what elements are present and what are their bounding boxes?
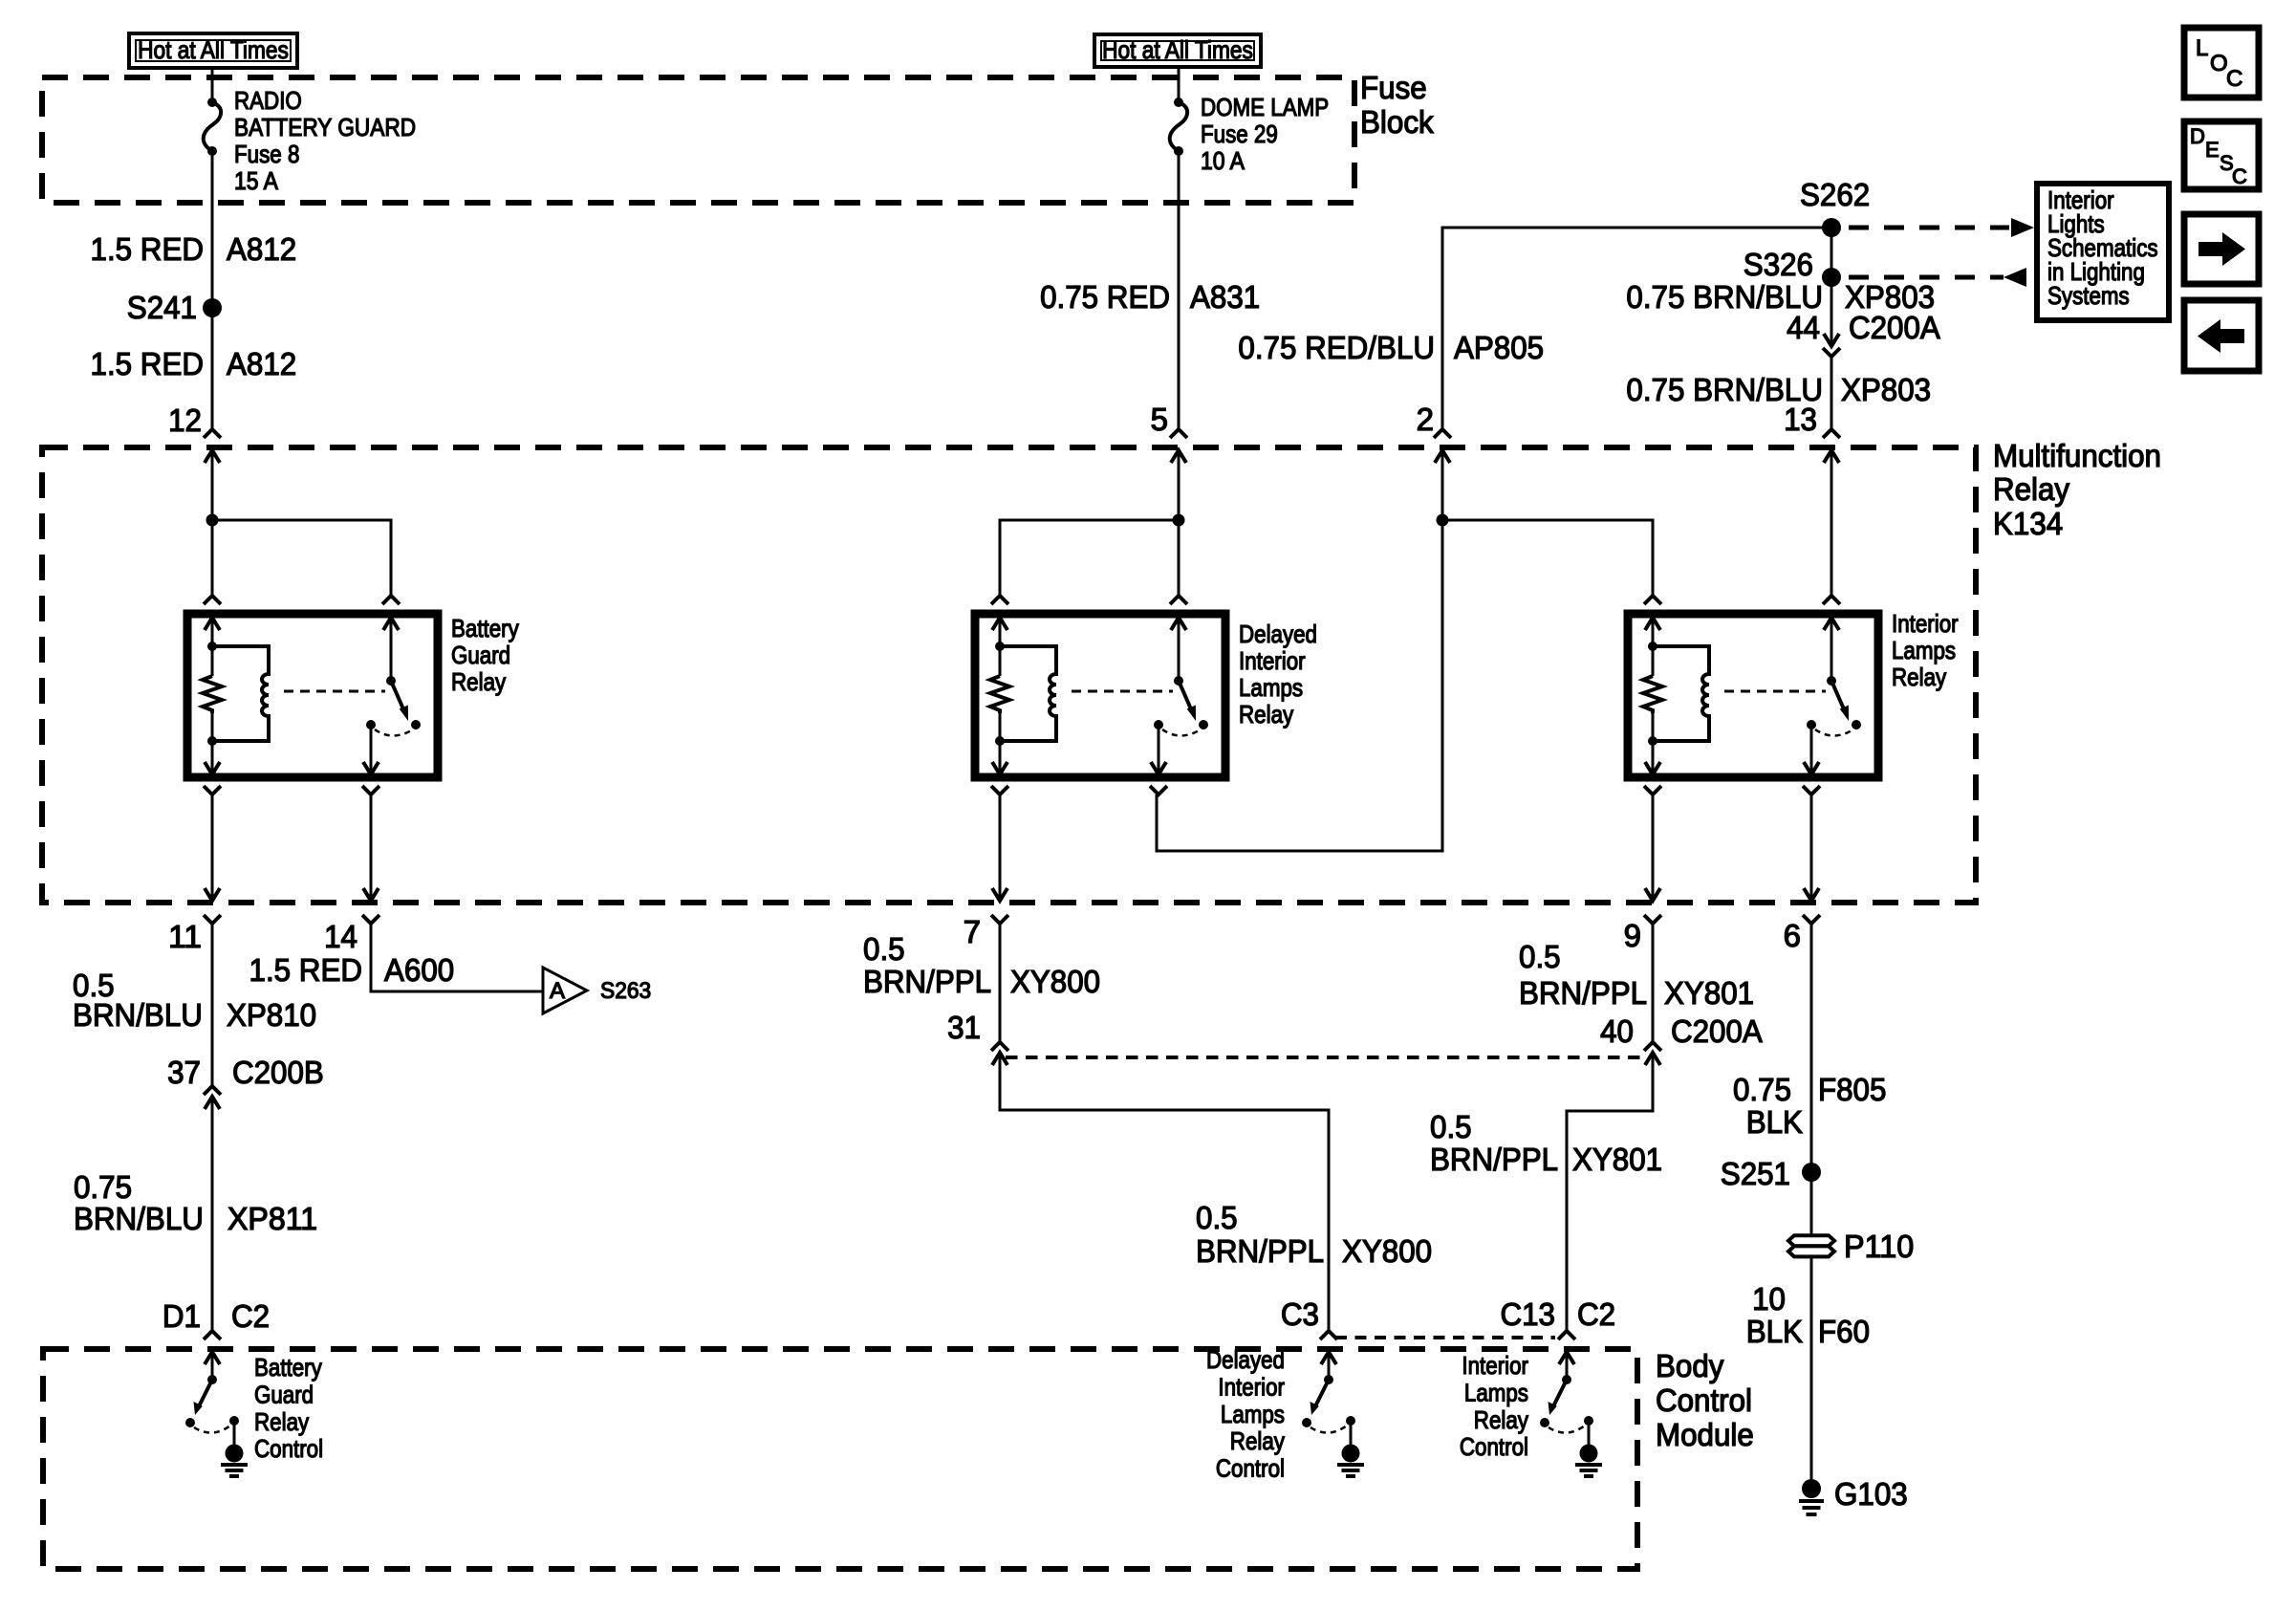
- svg-text:Delayed: Delayed: [1206, 1345, 1285, 1374]
- svg-text:10 A: 10 A: [1201, 146, 1245, 175]
- BCM switch: Battery Guard Relay Control ground: [221, 1421, 248, 1476]
- label 1.5 RED A812 (below splice): [91, 346, 297, 381]
- svg-text:BRN/PPL: BRN/PPL: [1430, 1142, 1558, 1177]
- svg-text:Lamps: Lamps: [1892, 636, 1956, 664]
- junction node (coil/switch feed): [206, 514, 219, 527]
- wire F60: P110 to ground G103: [1810, 1256, 1813, 1479]
- fuse F29 (DOME LAMP 10 A): [1170, 93, 1329, 175]
- svg-text:0.5: 0.5: [863, 931, 905, 967]
- svg-text:BRN/PPL: BRN/PPL: [1196, 1233, 1324, 1269]
- corner button next-page arrow: [2184, 214, 2259, 284]
- Delayed Interior Lamps Relay: switch arm and contacts: [1154, 676, 1208, 736]
- splice S262: [1800, 177, 1870, 237]
- junction node (dome lamp feed): [1173, 514, 1185, 527]
- wire XY800: C200A to BCM pin C3: [1000, 1053, 1329, 1331]
- svg-text:Relay: Relay: [1892, 663, 1946, 691]
- dashed signal: Interior Lights Schematics to S326 (incoming): [1849, 268, 2026, 287]
- svg-text:S241: S241: [127, 290, 197, 325]
- svg-text:S263: S263: [600, 978, 651, 1004]
- Delayed Interior Lamps Relay: coil inductor: [1000, 646, 1056, 741]
- svg-text:XY801: XY801: [1572, 1142, 1662, 1177]
- Battery Guard Relay: coil input terminal (top): [204, 596, 221, 646]
- svg-text:C200A: C200A: [1671, 1013, 1763, 1049]
- svg-text:K134: K134: [1993, 506, 2063, 541]
- corner button previous-page arrow: [2184, 300, 2259, 371]
- svg-text:XY800: XY800: [1010, 964, 1100, 999]
- svg-text:Interior: Interior: [1239, 646, 1306, 675]
- svg-text:12: 12: [168, 403, 202, 438]
- label Body Control Module: [1656, 1348, 1754, 1452]
- svg-text:14: 14: [324, 919, 357, 954]
- svg-text:0.5: 0.5: [1196, 1200, 1238, 1235]
- wire: branch to Interior Lamps Relay coil: [1442, 520, 1653, 596]
- wire F805: Interior Lamps Relay switch output to MF pin 6: [1804, 795, 1819, 901]
- svg-text:11: 11: [168, 919, 202, 954]
- svg-text:BRN/PPL: BRN/PPL: [863, 964, 991, 999]
- connector D1 C2 into BCM: [162, 1298, 270, 1339]
- Battery Guard Relay: actuation link (dashed): [284, 690, 385, 693]
- label Delayed Interior Lamps Relay: [1239, 620, 1317, 729]
- wire: Delayed Interior Lamps Relay switch output to dome lamp feed node: [1157, 526, 1442, 851]
- label 0.75 BRN/BLU XP803 (upper): [1626, 279, 1935, 315]
- svg-text:7: 7: [964, 914, 981, 949]
- svg-text:AP805: AP805: [1454, 330, 1544, 365]
- svg-text:0.5: 0.5: [1519, 939, 1561, 974]
- wire: battery feed to Fuse 8: [211, 68, 214, 102]
- svg-text:C200A: C200A: [1849, 310, 1940, 345]
- Battery Guard Relay: switch arm and contacts: [366, 676, 421, 736]
- wire: pin 12 down to Battery Guard Relay coil: [211, 450, 214, 596]
- svg-text:BATTERY GUARD: BATTERY GUARD: [234, 113, 416, 142]
- fuse block (dashed outline): [42, 77, 1354, 203]
- Interior Lamps Relay: coil resistor: [1643, 642, 1662, 746]
- svg-text:44: 44: [1787, 310, 1820, 345]
- svg-text:Control: Control: [1216, 1454, 1285, 1483]
- svg-text:Lamps: Lamps: [1221, 1400, 1285, 1428]
- wire: S262 to S326: [1830, 228, 1833, 277]
- wire: branch to Battery Guard Relay switch: [212, 520, 391, 596]
- BCM switch: Interior Lamps Relay Control (arm and contacts): [1540, 1375, 1593, 1433]
- Delayed Interior Lamps Relay: switch output terminal (bottom): [1150, 725, 1167, 795]
- wire XP810: pin 11 to connector C200B: [211, 924, 214, 1086]
- svg-text:C200B: C200B: [232, 1055, 324, 1090]
- svg-text:C3: C3: [1281, 1296, 1319, 1332]
- wire: Battery Guard Relay switch output to MF pin 14: [363, 795, 379, 901]
- pin 12 connector into Multifunction Relay: [168, 403, 221, 463]
- label 1.5 RED A600: [249, 952, 455, 988]
- svg-text:2: 2: [1417, 402, 1434, 437]
- svg-text:S251: S251: [1721, 1156, 1790, 1191]
- svg-text:Control: Control: [1656, 1382, 1752, 1418]
- inline connector 31 C200A: [947, 1010, 1008, 1065]
- Battery Guard Relay: coil output terminal (bottom): [204, 741, 221, 795]
- svg-text:1.5 RED: 1.5 RED: [91, 231, 205, 267]
- label 10 BLK F60: [1746, 1281, 1870, 1349]
- svg-text:C: C: [2226, 66, 2242, 92]
- svg-text:0.5: 0.5: [1430, 1109, 1472, 1144]
- svg-text:Battery: Battery: [254, 1353, 322, 1382]
- svg-text:Relay: Relay: [1474, 1405, 1528, 1434]
- pin 6 connector (MF bottom): [1784, 915, 1820, 953]
- svg-text:Relay: Relay: [1230, 1426, 1285, 1455]
- pin 11 connector (MF bottom): [168, 915, 221, 954]
- label Battery Guard Relay: [451, 614, 519, 696]
- relay box: Interior Lamps Relay: [1628, 614, 1878, 777]
- corner button LOC: [2184, 28, 2259, 98]
- label Interior Lamps Relay: [1892, 609, 1959, 691]
- Delayed Interior Lamps Relay: coil resistor: [990, 642, 1009, 746]
- Interior Lamps Relay: switch arm and contacts: [1807, 676, 1861, 736]
- connector C13 C2 into BCM: [1501, 1296, 1616, 1339]
- svg-text:Systems: Systems: [2047, 281, 2130, 310]
- Delayed Interior Lamps Relay: switch input terminal (top): [1170, 596, 1187, 681]
- Interior Lamps Relay: coil inductor: [1653, 646, 1709, 741]
- power feed box "Hot at All Times" (dome lamp): [1094, 34, 1261, 67]
- svg-text:9: 9: [1624, 918, 1641, 953]
- svg-text:G103: G103: [1834, 1476, 1908, 1512]
- Interior Lamps Relay: switch input terminal (top): [1823, 596, 1840, 681]
- fuse F8 (RADIO BATTERY GUARD 15 A): [204, 86, 416, 195]
- relay box: Battery Guard Relay: [187, 614, 438, 777]
- wire XP811: C200B to BCM pin D1 C2: [211, 1097, 214, 1331]
- label Multifunction Relay K134: [1993, 438, 2161, 541]
- svg-text:Guard: Guard: [254, 1380, 314, 1408]
- svg-text:6: 6: [1784, 918, 1801, 953]
- svg-text:C2: C2: [1577, 1296, 1615, 1332]
- svg-text:BLK: BLK: [1746, 1104, 1803, 1140]
- svg-text:S326: S326: [1744, 247, 1813, 282]
- corner button DESC: [2184, 121, 2259, 189]
- label Interior Lamps Relay Control: [1460, 1351, 1528, 1461]
- svg-text:A831: A831: [1190, 279, 1260, 315]
- label 0.75 BRN/BLU XP803 (lower): [1626, 372, 1931, 407]
- svg-text:0.75 RED: 0.75 RED: [1040, 279, 1170, 315]
- svg-text:Hot at All Times: Hot at All Times: [138, 35, 289, 64]
- wire: S251 to P110: [1810, 1172, 1813, 1235]
- svg-text:Interior: Interior: [1462, 1351, 1528, 1380]
- pin 9 connector (MF bottom): [1624, 915, 1661, 953]
- fuse block label: [1360, 70, 1434, 140]
- svg-text:F805: F805: [1818, 1072, 1886, 1107]
- svg-text:RADIO: RADIO: [234, 86, 302, 115]
- BCM switch: Battery Guard Relay Control (input terminal): [205, 1352, 220, 1380]
- svg-text:Control: Control: [254, 1434, 323, 1463]
- svg-text:Fuse: Fuse: [1360, 70, 1427, 105]
- relay box: Delayed Interior Lamps Relay: [975, 614, 1225, 777]
- svg-text:Guard: Guard: [451, 641, 510, 669]
- BCM switch: Interior Lamps Relay Control ground: [1575, 1421, 1602, 1476]
- connector C3 into BCM: [1281, 1296, 1337, 1339]
- connector C2 pass-through at BCM (dashed): [1335, 1336, 1555, 1339]
- svg-text:Relay: Relay: [1239, 700, 1293, 729]
- label 0.75 F805 BLK: [1733, 1072, 1886, 1140]
- pin 13 connector into Multifunction Relay: [1784, 402, 1840, 463]
- svg-text:Block: Block: [1360, 104, 1434, 140]
- off-page reference triangle A S263: [543, 968, 651, 1013]
- pin 7 connector (MF bottom): [964, 914, 1008, 949]
- label 0.75 RED/BLU AP805: [1238, 330, 1544, 365]
- wire: Interior Lamps Relay coil output to MF pin 9: [1645, 795, 1660, 901]
- label 0.5 BRN/PPL XY801 (lower): [1430, 1109, 1662, 1177]
- svg-text:BLK: BLK: [1746, 1314, 1803, 1349]
- svg-text:37: 37: [167, 1055, 201, 1090]
- svg-text:Relay: Relay: [254, 1407, 309, 1436]
- Battery Guard Relay: switch output terminal (bottom): [362, 725, 379, 795]
- svg-text:1.5 RED: 1.5 RED: [249, 952, 363, 988]
- Interior Lamps Relay: coil input terminal (top): [1644, 596, 1661, 646]
- wire: pin 13 down to Interior Lamps Relay switch: [1830, 450, 1833, 596]
- svg-text:O: O: [2210, 51, 2228, 76]
- svg-text:10: 10: [1752, 1281, 1786, 1317]
- svg-text:Delayed: Delayed: [1239, 620, 1317, 648]
- svg-text:XP810: XP810: [227, 997, 316, 1033]
- svg-text:0.75: 0.75: [74, 1169, 132, 1205]
- wire AP805: pin 2 up to splice S262: [1442, 228, 1822, 429]
- label 0.75 RED A831: [1040, 279, 1260, 315]
- label Delayed Interior Lamps Relay Control: [1206, 1345, 1285, 1483]
- Interior Lamps Relay: switch output terminal (bottom): [1803, 725, 1820, 795]
- svg-text:Relay: Relay: [451, 667, 506, 696]
- wire: Delayed Interior Lamps Relay coil output to MF pin 7: [992, 795, 1007, 901]
- svg-text:L: L: [2196, 35, 2208, 61]
- svg-text:40: 40: [1600, 1013, 1634, 1049]
- pin 2 connector into Multifunction Relay: [1417, 402, 1451, 438]
- BCM switch: Delayed Interior Lamps Relay Control (input terminal): [1321, 1352, 1336, 1380]
- svg-text:F60: F60: [1818, 1314, 1870, 1349]
- Interior Lamps Relay: coil output terminal (bottom): [1644, 741, 1661, 795]
- svg-text:E: E: [2205, 138, 2220, 162]
- wire XY800: pin 7 to connector C200A pin 31: [999, 924, 1002, 1042]
- svg-text:Lamps: Lamps: [1464, 1378, 1528, 1406]
- wire A600 to S263: [371, 924, 543, 991]
- inline connector 37 C200B: [167, 1055, 324, 1109]
- wire XY801: pin 9 to connector C200A pin 40: [1652, 924, 1655, 1042]
- label 1.5 RED A812 (above splice): [91, 231, 297, 267]
- label 0.75 BRN/BLU XP811: [74, 1169, 317, 1236]
- svg-text:1.5 RED: 1.5 RED: [91, 346, 205, 381]
- BCM switch: Interior Lamps Relay Control (input terminal): [1559, 1352, 1574, 1380]
- svg-text:Multifunction: Multifunction: [1993, 438, 2161, 473]
- wire: branch to Delayed Interior Lamps Relay coil: [1000, 520, 1179, 596]
- wire: Battery Guard Relay coil output to MF pin 11: [205, 795, 220, 901]
- dashed signal: S262 to Interior Lights Schematics (outgoing): [1849, 218, 2034, 237]
- svg-text:Interior: Interior: [1218, 1372, 1285, 1401]
- junction node AP805: [1437, 514, 1449, 527]
- wire: pin 5 down to Delayed Interior Lamps Relay switch: [1178, 450, 1180, 596]
- inline connector 40 C200A: [1600, 1013, 1763, 1065]
- wire: battery feed to Fuse 29: [1178, 67, 1180, 102]
- svg-text:5: 5: [1151, 402, 1168, 437]
- label 0.5 BRN/PPL XY800 (lower): [1196, 1200, 1432, 1269]
- wire A831: Fuse 29 to pin 5: [1178, 151, 1180, 429]
- svg-text:Module: Module: [1656, 1417, 1754, 1452]
- svg-text:Fuse 29: Fuse 29: [1201, 120, 1278, 148]
- svg-text:Lamps: Lamps: [1239, 673, 1303, 702]
- power feed box "Hot at All Times" (radio battery guard): [129, 33, 297, 68]
- label 0.5 BRN/BLU XP810: [73, 968, 316, 1033]
- wire XP803: C200A to pin 13: [1830, 357, 1833, 429]
- svg-text:A: A: [550, 978, 565, 1004]
- svg-text:Battery: Battery: [451, 614, 519, 642]
- svg-text:P110: P110: [1844, 1229, 1914, 1264]
- svg-text:BRN/BLU: BRN/BLU: [74, 1201, 204, 1236]
- Delayed Interior Lamps Relay: actuation link (dashed): [1072, 690, 1173, 693]
- Interior Lamps Relay: actuation link (dashed): [1724, 690, 1826, 693]
- splice S241: [127, 290, 222, 325]
- pin 5 connector into Multifunction Relay: [1151, 402, 1187, 463]
- inline connector P110: [1788, 1229, 1914, 1264]
- wire XP803: S326 down to connector C200A pin 44: [1824, 277, 1839, 346]
- Battery Guard Relay: coil inductor: [212, 646, 269, 741]
- svg-text:Hot at All Times: Hot at All Times: [1102, 35, 1253, 64]
- svg-text:BRN/BLU: BRN/BLU: [73, 997, 203, 1033]
- svg-text:Control: Control: [1460, 1432, 1528, 1461]
- Delayed Interior Lamps Relay: coil output terminal (bottom): [991, 741, 1008, 795]
- label Battery Guard Relay Control: [254, 1353, 323, 1463]
- svg-text:Body: Body: [1656, 1348, 1724, 1383]
- BCM switch: Delayed Interior Lamps Relay Control (arm and contacts): [1302, 1375, 1355, 1433]
- svg-text:D1: D1: [162, 1298, 201, 1334]
- svg-text:C: C: [2232, 164, 2247, 188]
- connector C200A pass-through (dashed): [1006, 1056, 1646, 1059]
- label 0.5 BRN/PPL XY800 (upper): [863, 931, 1100, 999]
- ground G103: [1799, 1476, 1908, 1514]
- svg-text:C13: C13: [1501, 1296, 1556, 1332]
- svg-text:Fuse 8: Fuse 8: [234, 140, 299, 168]
- svg-text:0.75 RED/BLU: 0.75 RED/BLU: [1238, 330, 1435, 365]
- wire AP805: node up to pin 2: [1435, 450, 1450, 520]
- Delayed Interior Lamps Relay: coil input terminal (top): [991, 596, 1008, 646]
- svg-text:D: D: [2190, 124, 2205, 148]
- svg-text:A812: A812: [227, 231, 296, 267]
- svg-text:15 A: 15 A: [234, 166, 279, 195]
- pin 14 connector (MF bottom): [324, 915, 379, 954]
- splice S326: [1744, 247, 1841, 287]
- BCM switch: Battery Guard Relay Control (arm and contacts): [185, 1375, 239, 1433]
- inline connector 44 C200A: [1787, 310, 1940, 357]
- Battery Guard Relay: switch input terminal (top): [382, 596, 400, 681]
- svg-text:A812: A812: [227, 346, 296, 381]
- BCM switch: Delayed Interior Lamps Relay Control ground: [1337, 1421, 1364, 1476]
- label 0.5 BRN/PPL XY801 (upper): [1519, 939, 1754, 1011]
- Multifunction Relay K134 (dashed outline): [42, 447, 1976, 903]
- Battery Guard Relay: coil resistor: [203, 642, 222, 746]
- wire XY801: C200A to BCM pin C13 C2: [1567, 1053, 1653, 1331]
- wire F805: pin 6 to splice S251: [1810, 924, 1813, 1172]
- svg-text:A600: A600: [384, 952, 454, 988]
- svg-text:Relay: Relay: [1993, 471, 2070, 507]
- svg-text:XP811: XP811: [227, 1201, 317, 1236]
- reference box: Interior Lights Schematics in Lighting Systems: [2037, 184, 2169, 320]
- svg-text:BRN/PPL: BRN/PPL: [1519, 975, 1647, 1011]
- svg-text:13: 13: [1784, 402, 1817, 437]
- svg-text:XY801: XY801: [1664, 975, 1754, 1011]
- wire A812: Fuse 8 to pin 12: [211, 151, 214, 429]
- svg-text:0.75: 0.75: [1733, 1072, 1791, 1107]
- svg-text:DOME LAMP: DOME LAMP: [1201, 93, 1329, 121]
- svg-text:S262: S262: [1800, 177, 1870, 212]
- Body Control Module (dashed outline): [43, 1349, 1637, 1569]
- svg-text:XY800: XY800: [1342, 1233, 1432, 1269]
- svg-text:31: 31: [947, 1010, 981, 1045]
- svg-text:XP803: XP803: [1841, 372, 1931, 407]
- svg-text:C2: C2: [231, 1298, 270, 1334]
- splice S251: [1721, 1156, 1821, 1191]
- svg-text:Interior: Interior: [1892, 609, 1959, 638]
